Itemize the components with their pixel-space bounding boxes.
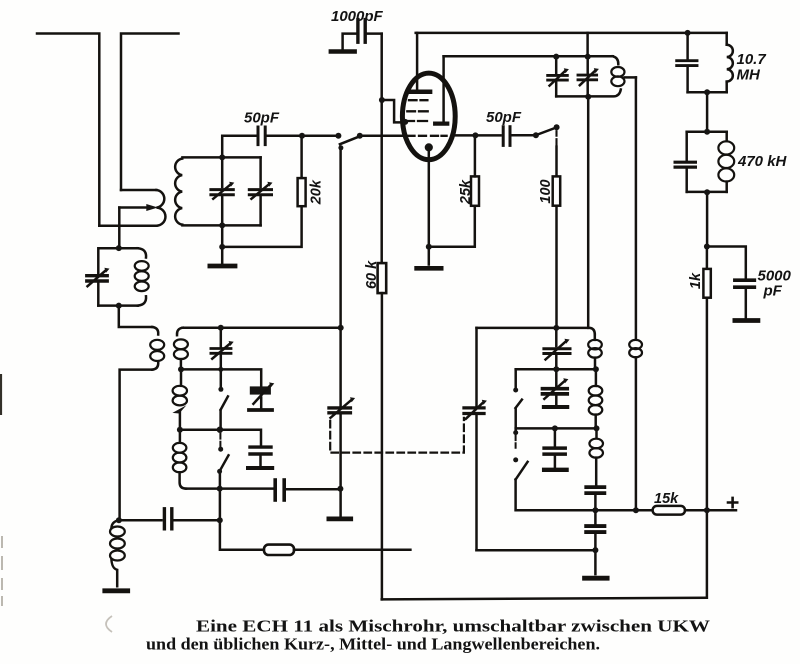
svg-text:60 k: 60 k [364, 260, 380, 289]
svg-text:100: 100 [538, 179, 554, 203]
svg-text:20k: 20k [309, 179, 325, 205]
svg-text:1000pF: 1000pF [331, 8, 384, 25]
svg-text:Eine ECH 11 als Mischrohr, ums: Eine ECH 11 als Mischrohr, umschaltbar z… [196, 617, 710, 636]
svg-text:50pF: 50pF [244, 110, 280, 127]
svg-text:pF: pF [763, 283, 783, 300]
svg-text:10.7: 10.7 [737, 51, 767, 68]
svg-text:und den üblichen Kurz-, Mittel: und den üblichen Kurz-, Mittel- und Lang… [146, 635, 600, 654]
svg-text:50pF: 50pF [486, 109, 522, 126]
svg-text:25k: 25k [458, 179, 474, 205]
svg-text:MH: MH [737, 67, 761, 84]
svg-text:15k: 15k [654, 491, 679, 507]
svg-text:470 kH: 470 kH [737, 153, 788, 170]
svg-text:1k: 1k [688, 272, 704, 289]
